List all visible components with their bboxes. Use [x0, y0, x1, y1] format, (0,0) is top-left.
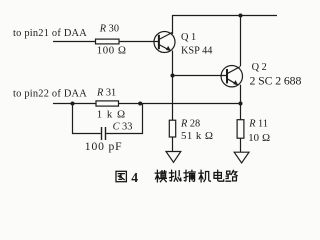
- wire Q2 collector drop: [240, 16, 242, 67]
- svg-text:R 31: R 31: [96, 88, 116, 99]
- wire R11 lead: [240, 104, 242, 120]
- svg-text:to pin22 of DAA: to pin22 of DAA: [13, 88, 87, 99]
- resistor R31: [96, 101, 119, 106]
- svg-text:R 11: R 11: [248, 118, 268, 129]
- resistor R11: [237, 120, 244, 139]
- wire top rail: [173, 15, 278, 17]
- wire Q1 collector to top rail: [172, 15, 174, 34]
- wire R28 to ground: [172, 137, 174, 152]
- wire row2 rail: [53, 103, 241, 105]
- svg-text:C 33: C 33: [113, 122, 133, 133]
- transistor Q2: [221, 66, 242, 87]
- capacitor C33 branch right leg: [106, 104, 142, 134]
- node junction top rail / Q2 collector: [239, 14, 243, 18]
- wire pin21 lead left: [53, 41, 96, 43]
- resistor R30: [96, 39, 120, 44]
- resistor R28: [169, 120, 175, 137]
- svg-text:Q 1: Q 1: [181, 32, 196, 43]
- node Q2 emitter / R11: [239, 102, 243, 106]
- capacitor C33 plates: [101, 127, 103, 140]
- svg-text:51 k Ω: 51 k Ω: [181, 130, 214, 142]
- svg-text:to pin21 of DAA: to pin21 of DAA: [13, 28, 87, 39]
- svg-text:10 Ω: 10 Ω: [248, 132, 270, 144]
- caption char 路: [226, 170, 237, 181]
- svg-text:4: 4: [131, 170, 138, 185]
- svg-text:KSP 44: KSP 44: [181, 46, 212, 57]
- wire Q2 base: [173, 75, 228, 77]
- svg-text:2 SC 2 688: 2 SC 2 688: [250, 73, 302, 87]
- svg-text:100 pF: 100 pF: [85, 140, 123, 153]
- transistor Q1: [154, 32, 175, 53]
- caption char 模: [155, 170, 166, 182]
- wire Q2 emitter down: [240, 85, 242, 104]
- ground under R11: [234, 152, 249, 163]
- node Q1 emitter / Q2 base: [171, 74, 175, 78]
- caption char 图: [116, 171, 126, 181]
- caption char 电: [214, 170, 224, 181]
- svg-text:Q 2: Q 2: [252, 62, 267, 73]
- ground under R28: [166, 152, 181, 163]
- wire R30 to Q1 base: [119, 41, 159, 43]
- svg-text:R 30: R 30: [99, 23, 119, 34]
- capacitor C33 branch left leg: [73, 104, 101, 134]
- wire Q1 emitter down to R28: [172, 51, 174, 121]
- svg-text:100 Ω: 100 Ω: [97, 44, 127, 56]
- wire R11 to ground: [240, 138, 242, 152]
- node C33 branch left: [71, 102, 75, 106]
- caption char 拟: [169, 170, 181, 181]
- svg-text:R 28: R 28: [180, 118, 200, 129]
- caption char 摘: [184, 170, 195, 181]
- node R31 right junction: [138, 102, 142, 106]
- caption: 图 4 模拟摘机电路 (drawn as strokes): [116, 170, 237, 185]
- svg-text:1 k Ω: 1 k Ω: [97, 108, 127, 120]
- caption char 机: [199, 170, 211, 182]
